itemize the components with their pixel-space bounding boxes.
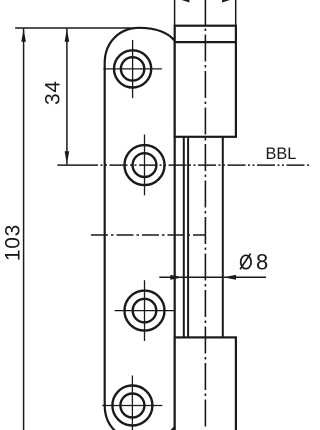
plate horizontal centerline (dash-dot)	[91, 234, 205, 236]
screw hole 1 crosshair	[103, 68, 162, 70]
lower knuckle body	[175, 337, 236, 430]
screw hole 4 inner	[120, 394, 144, 418]
screw hole 3 outer	[125, 291, 165, 331]
screw hole 4 outer	[112, 386, 152, 426]
pin left outer line	[183, 137, 185, 338]
upper knuckle body	[175, 26, 236, 137]
BBL reference line (dash-dot)	[57, 164, 80, 166]
arrow 103 top	[21, 29, 26, 42]
pin left inner line	[187, 137, 189, 338]
arrow dia8 left	[170, 275, 183, 280]
dimension line 103	[23, 29, 25, 430]
screw hole 3 crosshair	[115, 310, 175, 312]
barrel vertical centerline (dash-dot)	[204, 0, 206, 430]
pin right line	[222, 137, 224, 338]
hinge leaf plate (rounded outline)	[105, 28, 175, 430]
top extension line (plate top reference)	[15, 27, 137, 29]
screw hole 1 outer	[114, 50, 151, 87]
svg-text:34: 34	[41, 80, 64, 105]
arrow 34 top	[65, 29, 70, 42]
svg-text:BBL: BBL	[266, 145, 297, 163]
dimension line 34	[66, 29, 68, 165]
cut-off dimension arrow top-left	[175, 0, 189, 3]
upper knuckle cap line B	[175, 41, 236, 43]
label dia 8 : diameter symbol	[240, 254, 251, 270]
screw hole 2 vertical crosshair	[144, 135, 146, 196]
arrow 34 bottom	[65, 151, 70, 164]
screw hole 4 crosshair	[102, 405, 162, 407]
dimension line diameter 8	[159, 276, 266, 278]
svg-text:103: 103	[1, 224, 24, 261]
arrow dia8 right	[223, 275, 236, 280]
screw hole 3 inner	[133, 299, 157, 323]
screw hole 2 outer	[125, 145, 165, 185]
barrel cut-off thin sides above cap	[174, 0, 176, 26]
svg-text:8: 8	[256, 250, 268, 275]
cut-off dimension arrow top-right	[222, 0, 236, 3]
screw hole 2 inner	[133, 153, 157, 177]
screw hole 1 inner	[121, 57, 144, 80]
